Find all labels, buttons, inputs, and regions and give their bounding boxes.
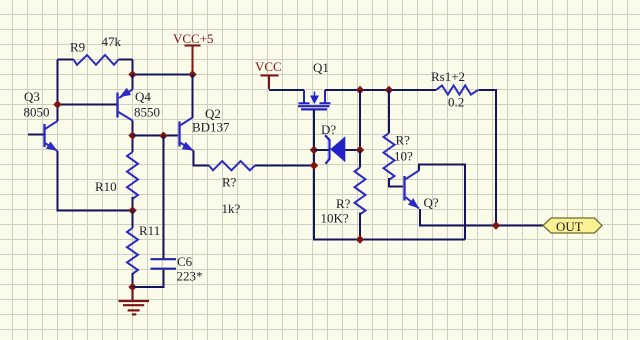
Q? base bar: [403, 176, 405, 201]
ground: [119, 287, 150, 314]
wire: bottom lead: [359, 213, 361, 240]
Q1 gate bar 2: [301, 108, 327, 110]
power port VCC+5: [173, 31, 214, 75]
wire: R9 right lead down: [132, 60, 134, 75]
Q? emitter diagonal: [406, 197, 420, 209]
svg-text:Q4: Q4: [135, 89, 151, 104]
svg-text:1k?: 1k?: [222, 201, 241, 216]
svg-text:VCC: VCC: [255, 59, 282, 74]
wire: R? 1k to gate node: [255, 165, 314, 167]
wire: Q2 collector up to VCC+5 node: [192, 75, 194, 119]
wire: Q3 emitter down and right to R10 bottom node: [58, 151, 133, 211]
wire: R11 bottom lead: [132, 273, 134, 287]
transistor Q4 8550: [118, 88, 161, 121]
junction dot (132.5,74.5): [128, 70, 136, 78]
wire: C6 top lead from Q2 base node: [163, 136, 165, 260]
mosfet Q1: [298, 60, 331, 109]
wire: top lead: [359, 150, 361, 168]
junction dot (496,225.5): [492, 221, 500, 229]
wire: Q4 collector down to node: [132, 121, 134, 153]
svg-text:223*: 223*: [177, 269, 203, 284]
svg-text:R?: R?: [222, 175, 237, 190]
port OUT: [543, 218, 602, 234]
svg-text:R9: R9: [70, 40, 85, 55]
Q3 collector diagonal: [45, 121, 58, 129]
Q2 emitter arrow: [182, 142, 194, 151]
wire: Rs1+2 right lead down to OUT rail: [479, 90, 497, 226]
svg-text:Q1: Q1: [313, 60, 329, 75]
svg-text:VCC+5: VCC+5: [173, 31, 214, 46]
svg-text:8550: 8550: [134, 105, 160, 120]
svg-text:R10: R10: [95, 179, 117, 194]
junction dot (314,150): [310, 146, 318, 154]
Q3 emitter diagonal: [45, 143, 58, 151]
wire: Q1 gate down chain: [314, 109, 465, 239]
wire: Q2 emitter to R?: [194, 151, 210, 166]
junction dot (132.5,210.5): [128, 206, 136, 214]
Q2 collector diagonal: [180, 118, 193, 126]
resistor Rs1+2: [431, 69, 478, 110]
junction dot (314,165.5): [310, 161, 318, 169]
svg-text:C6: C6: [177, 254, 193, 269]
resistor R? 10K?: [321, 150, 366, 240]
Q? emitter arrow: [408, 198, 419, 208]
Q1 gate bar 1: [298, 105, 330, 107]
Q4 collector diagonal: [119, 112, 133, 121]
wire: cathode lead: [314, 149, 360, 151]
svg-text:8050: 8050: [24, 105, 50, 120]
Q2 base bar: [178, 122, 180, 147]
wire: VCC to Q1 source: [269, 89, 304, 91]
svg-text:OUT: OUT: [556, 219, 583, 234]
transistor Q3 8050: [24, 89, 58, 151]
junction dot (132.5,287): [128, 283, 136, 291]
Q1 right pin drop: [320, 90, 331, 103]
wire: R11 top lead: [132, 211, 134, 229]
Q? collector diagonal: [405, 171, 419, 180]
svg-text:47k: 47k: [102, 34, 122, 49]
svg-text:10K?: 10K?: [321, 211, 349, 226]
transistor Q2 BD137: [180, 75, 231, 151]
Q4 base bar: [116, 93, 118, 118]
wire: Q? emitter to OUT rail: [420, 209, 543, 226]
wire: drain rail down to diode anode: [359, 90, 361, 150]
resistor R10: [95, 152, 138, 199]
transistor Q?: [405, 171, 439, 211]
junction dot (360,89): [356, 86, 364, 94]
junction dot (163.5,135.8): [159, 132, 167, 140]
wire: Q4 emitter up to rail: [132, 75, 134, 90]
wire: Q1 drain rail to Rs1+2: [325, 89, 436, 91]
wire: y=104 node A to Q4 base: [58, 104, 118, 106]
resistor R9: [58, 55, 133, 65]
capacitor C6: [133, 136, 203, 288]
wire: R9 left vertical to Q3 collector node: [57, 60, 59, 105]
wire: C6 bottom lead: [133, 270, 164, 287]
resistor R11: [127, 211, 160, 274]
svg-text:BD137: BD137: [192, 120, 230, 135]
Q1 substrate arrow: [314, 92, 316, 98]
junction dot (132.5,135.5): [128, 131, 136, 139]
Q3 emitter arrow: [46, 142, 58, 152]
resistor R? 10?: [384, 90, 414, 187]
wire: top rail y=74.5: [133, 74, 193, 76]
junction dot (192.5,74.5): [188, 70, 196, 78]
Q1 left pin drop: [299, 90, 310, 103]
wire: Q3 base stub: [28, 134, 44, 136]
wire: R10 bottom lead: [132, 197, 134, 211]
svg-text:Rs1+2: Rs1+2: [431, 69, 465, 84]
Q4 emitter diagonal: [119, 90, 133, 99]
Q2 emitter diagonal: [180, 143, 193, 151]
svg-text:10?: 10?: [394, 149, 413, 164]
wire: node to Q2 base: [133, 135, 179, 137]
svg-text:R?: R?: [336, 196, 351, 211]
junction dot (360,150): [356, 146, 364, 154]
wire: Q3 collector up to node: [57, 105, 59, 122]
svg-text:R11: R11: [139, 223, 160, 238]
svg-text:R?: R?: [396, 133, 411, 148]
junction dot (57.5,104.5): [53, 100, 61, 108]
svg-text:Q3: Q3: [24, 89, 40, 104]
wire: top lead from drain rail: [388, 90, 390, 133]
power port VCC: [255, 59, 282, 89]
wire: Q? collector loop: [419, 165, 465, 240]
diode D? (zener): [314, 122, 360, 164]
C6 plates: [151, 259, 177, 269]
Q3 base bar: [43, 124, 45, 147]
svg-text:D?: D?: [321, 122, 336, 137]
D? triangle: [330, 136, 345, 162]
D? cathode bar with flags: [325, 135, 330, 164]
resistor R? 1k?: [209, 161, 255, 216]
junction dot (360,239.5): [356, 235, 364, 243]
Q4 emitter arrow (points into bar): [120, 88, 132, 97]
svg-text:Q?: Q?: [424, 195, 439, 210]
junction dot (389,89): [385, 86, 393, 94]
wire: bottom lead to Q? base: [389, 178, 403, 187]
svg-text:0.2: 0.2: [448, 95, 464, 110]
